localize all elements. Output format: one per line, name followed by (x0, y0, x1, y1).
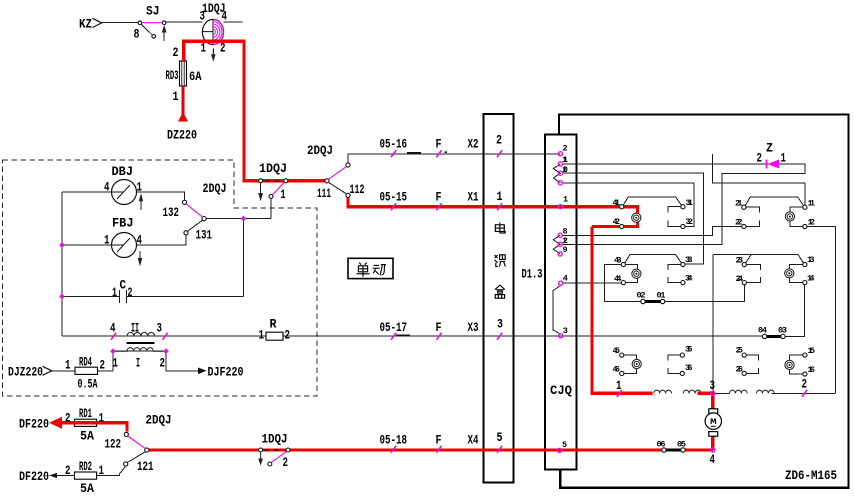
svg-text:1: 1 (112, 286, 117, 300)
svg-text:DJZ220: DJZ220 (8, 366, 43, 380)
svg-text:X1: X1 (468, 191, 479, 205)
svg-text:4: 4 (110, 322, 116, 336)
svg-text:2: 2 (802, 378, 808, 392)
svg-text:1: 1 (281, 188, 286, 202)
svg-text:3: 3 (200, 10, 206, 24)
svg-text:1: 1 (65, 359, 71, 373)
svg-text:CJQ: CJQ (550, 384, 572, 398)
svg-text:1DQJ: 1DQJ (262, 433, 288, 447)
svg-text:01: 01 (657, 291, 666, 301)
svg-text:43: 43 (614, 256, 622, 266)
svg-text:RD3: RD3 (166, 69, 179, 83)
svg-text:05-17: 05-17 (380, 321, 408, 335)
svg-text:X3: X3 (468, 321, 479, 335)
svg-text:35: 35 (685, 345, 693, 355)
svg-text:31: 31 (686, 198, 694, 208)
svg-text:I: I (136, 357, 140, 371)
svg-text:KZ: KZ (79, 18, 92, 32)
svg-text:1: 1 (563, 195, 568, 205)
svg-text:2: 2 (65, 464, 71, 478)
svg-text:1: 1 (99, 464, 105, 478)
svg-text:11: 11 (562, 155, 568, 165)
svg-text:1: 1 (497, 190, 503, 204)
svg-text:X4: X4 (468, 434, 479, 448)
svg-text:4: 4 (710, 453, 716, 467)
svg-text:02: 02 (637, 291, 646, 301)
svg-text:46: 46 (613, 365, 621, 375)
svg-text:1: 1 (137, 181, 143, 195)
svg-text:DF220: DF220 (19, 470, 49, 484)
svg-text:26: 26 (736, 365, 744, 375)
svg-text:22: 22 (735, 218, 743, 228)
svg-text:F: F (436, 321, 442, 335)
svg-text:DBJ: DBJ (112, 165, 134, 179)
svg-text:23: 23 (736, 256, 744, 266)
svg-text:36: 36 (685, 363, 693, 373)
svg-text:2DQJ: 2DQJ (203, 182, 227, 196)
svg-text:1: 1 (201, 42, 207, 56)
svg-text:11: 11 (808, 199, 816, 209)
svg-text:ZD6-M165: ZD6-M165 (785, 469, 837, 483)
svg-text:DZ220: DZ220 (167, 129, 197, 143)
svg-text:2: 2 (757, 152, 763, 166)
svg-text:111: 111 (317, 187, 331, 201)
svg-text:1: 1 (616, 379, 622, 393)
svg-text:1DQJ: 1DQJ (259, 162, 287, 176)
svg-text:2: 2 (128, 286, 133, 300)
svg-text:M: M (710, 418, 717, 427)
svg-text:1: 1 (104, 234, 110, 248)
svg-text:5: 5 (562, 440, 567, 450)
svg-text:R: R (270, 318, 277, 332)
svg-text:3: 3 (497, 318, 503, 332)
svg-text:34: 34 (685, 274, 693, 284)
svg-text:1: 1 (173, 90, 179, 104)
svg-text:25: 25 (736, 346, 744, 356)
svg-text:X2: X2 (468, 138, 479, 152)
svg-text:FBJ: FBJ (112, 217, 134, 231)
svg-text:8: 8 (134, 28, 140, 42)
svg-text:10: 10 (562, 165, 568, 175)
svg-text:F: F (436, 138, 442, 152)
svg-text:4: 4 (104, 181, 110, 195)
svg-text:1: 1 (259, 329, 265, 343)
svg-text:C: C (120, 279, 127, 293)
svg-text:8: 8 (563, 227, 568, 237)
svg-text:03: 03 (778, 326, 787, 336)
svg-text:0.5A: 0.5A (78, 378, 98, 392)
svg-text:41: 41 (613, 198, 621, 208)
svg-text:13: 13 (807, 255, 815, 265)
svg-text:DJF220: DJF220 (208, 366, 244, 380)
svg-text:1: 1 (781, 152, 787, 166)
svg-text:12: 12 (808, 218, 816, 228)
svg-text:2DQJ: 2DQJ (307, 144, 333, 158)
svg-text:RD4: RD4 (79, 356, 92, 370)
svg-text:05-15: 05-15 (380, 191, 408, 205)
svg-text:2: 2 (160, 357, 166, 371)
svg-text:2: 2 (220, 42, 226, 56)
svg-text:2: 2 (496, 134, 502, 148)
svg-text:05-18: 05-18 (380, 434, 408, 448)
svg-text:2: 2 (173, 46, 179, 60)
svg-text:SJ: SJ (146, 5, 160, 19)
svg-text:06: 06 (657, 440, 666, 450)
svg-text:Z: Z (766, 142, 773, 156)
svg-text:5A: 5A (80, 430, 94, 444)
svg-text:4: 4 (563, 274, 568, 284)
svg-text:F: F (436, 191, 442, 205)
svg-text:2DQJ: 2DQJ (146, 414, 172, 428)
svg-text:3: 3 (563, 326, 568, 336)
svg-text:9: 9 (563, 245, 568, 255)
svg-text:3: 3 (157, 322, 163, 336)
svg-text:04: 04 (758, 326, 767, 336)
svg-text:2: 2 (100, 359, 106, 373)
svg-text:2: 2 (285, 329, 291, 343)
svg-text:45: 45 (613, 346, 621, 356)
svg-text:121: 121 (137, 460, 154, 474)
svg-text:42: 42 (613, 217, 621, 227)
svg-text:122: 122 (105, 438, 122, 452)
svg-text:1: 1 (113, 357, 119, 371)
svg-text:D1.3: D1.3 (522, 268, 543, 282)
svg-text:5: 5 (497, 431, 503, 445)
svg-text:2: 2 (563, 144, 568, 154)
svg-text:4: 4 (137, 234, 143, 248)
svg-text:2: 2 (65, 412, 71, 426)
svg-text:05-16: 05-16 (380, 138, 408, 152)
svg-text:16: 16 (808, 365, 816, 375)
svg-text:RD2: RD2 (79, 460, 92, 474)
svg-text:44: 44 (614, 274, 622, 284)
svg-text:132: 132 (163, 206, 180, 220)
svg-text:6A: 6A (189, 70, 202, 84)
svg-text:14: 14 (807, 274, 815, 284)
svg-text:1: 1 (99, 412, 105, 426)
svg-text:21: 21 (735, 199, 743, 209)
svg-text:5A: 5A (80, 482, 94, 496)
svg-text:05: 05 (677, 440, 686, 450)
svg-text:15: 15 (808, 346, 816, 356)
svg-text:32: 32 (686, 217, 694, 227)
svg-text:2: 2 (283, 456, 289, 470)
svg-text:RD1: RD1 (79, 407, 92, 421)
svg-text:DF220: DF220 (19, 418, 49, 432)
svg-text:4: 4 (222, 10, 228, 24)
svg-text:33: 33 (685, 255, 693, 265)
svg-text:II: II (131, 322, 139, 336)
svg-text:F: F (436, 434, 442, 448)
svg-text:24: 24 (736, 274, 744, 284)
svg-text:131: 131 (196, 229, 213, 243)
svg-text:112: 112 (350, 183, 365, 197)
svg-text:3: 3 (710, 379, 716, 393)
